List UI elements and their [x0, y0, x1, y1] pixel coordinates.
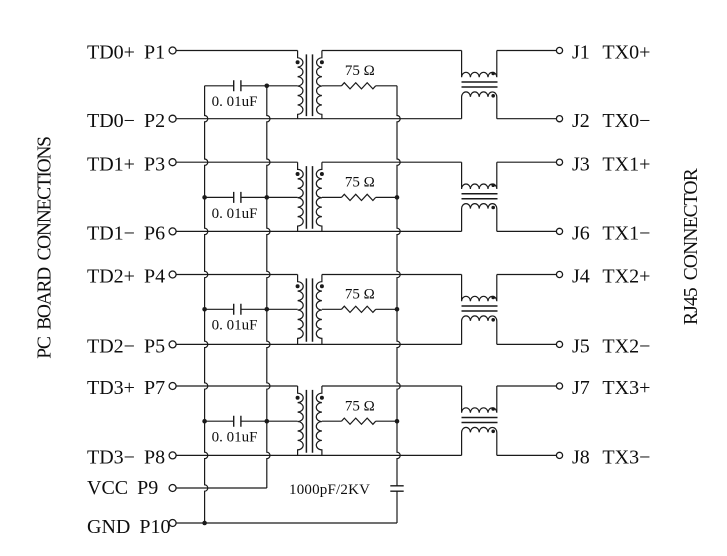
capacitor C5 1000pF/2KV plates [390, 486, 403, 491]
transformer T3 primary winding [298, 275, 304, 345]
pin J5 terminal circle [556, 341, 562, 347]
wire pin P9 to VCC rail [176, 487, 267, 489]
node: termination rail / R3 junction [395, 307, 400, 312]
resistor R1 75 ohm zigzag [342, 83, 376, 89]
transformer T4 secondary phase dot [320, 396, 324, 400]
pin P1 terminal circle [169, 47, 176, 54]
pin J4 terminal circle [556, 271, 562, 277]
svg-text:TD3− P8: TD3− P8 [87, 447, 165, 469]
svg-text:TD1− P6: TD1− P6 [87, 223, 165, 245]
wire P6 line to choke L2 (bottom, continuous) [176, 230, 462, 232]
svg-text:VCC P9: VCC P9 [87, 477, 158, 499]
wire T1 secondary center tap to resistor R1 [322, 85, 342, 87]
svg-text:1000pF/2KV: 1000pF/2KV [289, 482, 370, 498]
wire GND rail to capacitor C1 [205, 85, 234, 87]
svg-text:J2 TX0−: J2 TX0− [572, 110, 650, 132]
wire T2 secondary top to choke L2 [322, 161, 462, 163]
svg-text:0. 01uF: 0. 01uF [212, 94, 258, 110]
choke L3 top phase dot [491, 296, 495, 300]
svg-text:0. 01uF: 0. 01uF [212, 430, 258, 446]
svg-text:TD2− P5: TD2− P5 [87, 336, 165, 358]
svg-text:RJ45 CONNECTOR: RJ45 CONNECTOR [681, 168, 702, 325]
node: VCC rail / C3 junction [265, 307, 270, 312]
resistor R3 75 ohm zigzag [342, 306, 376, 312]
pin P9 terminal circle [169, 485, 176, 492]
choke L3 bottom winding [462, 316, 497, 345]
choke L4 top phase dot [491, 407, 495, 411]
svg-text:J3 TX1+: J3 TX1+ [572, 153, 650, 175]
choke L2 bottom winding [462, 204, 497, 232]
pin P8 terminal circle [169, 452, 176, 459]
wire P2 line to choke L1 (bottom, continuous) [176, 118, 462, 120]
pin P4 terminal circle [169, 271, 176, 278]
wire T3 secondary top to choke L3 [322, 274, 462, 276]
svg-text:75 Ω: 75 Ω [345, 398, 375, 414]
pin J8 terminal circle [556, 452, 562, 458]
transformer T1 primary phase dot [296, 60, 300, 64]
wire choke L1 to J2 [497, 118, 557, 120]
transformer T4 core [306, 390, 312, 453]
svg-text:PC BOARD CONNECTIONS: PC BOARD CONNECTIONS [35, 137, 56, 359]
wire VCC rail (vertical, with crossover hops) [267, 86, 270, 488]
transformer T2 core [306, 166, 312, 229]
pin J6 terminal circle [556, 228, 562, 234]
transformer T3 core [306, 278, 312, 341]
transformer T2 secondary winding [316, 162, 322, 231]
transformer T4 primary winding [298, 386, 304, 455]
resistor R4 75 ohm zigzag [342, 418, 376, 424]
svg-text:TD0− P2: TD0− P2 [87, 110, 165, 132]
svg-text:J4 TX2+: J4 TX2+ [572, 266, 650, 288]
svg-text:75 Ω: 75 Ω [345, 286, 375, 302]
svg-text:0. 01uF: 0. 01uF [212, 206, 258, 222]
wire resistor R3 to termination rail [376, 308, 397, 310]
svg-text:GND P10: GND P10 [87, 516, 170, 538]
wire choke L3 to J4 [497, 274, 557, 276]
wire capacitor C5 to GND line [396, 491, 398, 523]
choke L1 bottom phase dot [491, 94, 495, 98]
transformer T1 primary winding [298, 51, 303, 119]
wire choke L2 to J3 [497, 161, 557, 163]
wire choke L4 to J7 [497, 385, 557, 387]
transformer T2 primary phase dot [296, 172, 300, 176]
svg-text:0. 01uF: 0. 01uF [212, 318, 258, 334]
svg-text:J5 TX2−: J5 TX2− [572, 336, 650, 358]
wire resistor R2 to termination rail [376, 196, 397, 198]
wire choke L2 to J6 [497, 230, 557, 232]
pin J1 terminal circle [556, 47, 562, 53]
wire T4 secondary center tap to resistor R4 [322, 420, 342, 422]
transformer T3 primary phase dot [296, 284, 300, 288]
choke L3 core [462, 306, 498, 311]
capacitor C4 plates [234, 416, 241, 427]
wire T3 secondary center tap to resistor R3 [322, 308, 342, 310]
wire P1 to T1 primary top [176, 50, 298, 52]
wire P4 to T3 primary top [176, 274, 298, 276]
pin J2 terminal circle [556, 116, 562, 122]
transformer T1 secondary winding [317, 51, 322, 119]
choke L4 bottom phase dot [491, 430, 495, 434]
svg-text:75 Ω: 75 Ω [345, 63, 375, 79]
svg-text:TD1+ P3: TD1+ P3 [87, 153, 165, 175]
choke L4 top winding [462, 386, 497, 413]
svg-text:75 Ω: 75 Ω [345, 175, 375, 191]
choke L4 bottom winding [462, 427, 497, 455]
svg-text:TD2+ P4: TD2+ P4 [87, 266, 165, 288]
transformer T4 secondary winding [316, 386, 322, 455]
choke L2 core [462, 194, 498, 199]
transformer T1 secondary phase dot [320, 60, 324, 64]
node: VCC rail / C1 junction [265, 84, 270, 89]
wire P5 line to choke L3 (bottom, continuous) [176, 343, 462, 345]
node: GND rail / C3 junction [202, 307, 207, 312]
wire resistor R1 to termination rail [376, 85, 397, 87]
choke L3 bottom phase dot [491, 318, 495, 322]
transformer T2 secondary phase dot [320, 172, 324, 176]
wire T1 secondary top to choke L1 [322, 50, 462, 52]
transformer T1 core [306, 54, 312, 116]
svg-text:TD3+ P7: TD3+ P7 [87, 377, 165, 399]
wire P7 to T4 primary top [176, 385, 298, 387]
wire capacitor C3 to VCC rail and T3 primary center tap [241, 308, 298, 310]
pin J7 terminal circle [556, 383, 562, 389]
pin P10 terminal circle [169, 520, 176, 527]
pin J3 terminal circle [556, 159, 562, 165]
transformer T3 secondary phase dot [320, 284, 324, 288]
wire T4 secondary top to choke L4 [322, 385, 462, 387]
wire choke L1 to J1 [497, 50, 557, 52]
node: VCC rail / C4 junction [265, 419, 270, 424]
wire termination rail to 1000pF cap (vertical, with crossover hops) [397, 86, 400, 486]
transformer T4 primary phase dot [296, 396, 300, 400]
choke L2 top winding [462, 162, 497, 189]
capacitor C3 plates [234, 304, 241, 315]
pin P5 terminal circle [169, 341, 176, 348]
wire resistor R4 to termination rail [376, 420, 397, 422]
wire GND rail to capacitor C3 [205, 308, 234, 310]
pin P6 terminal circle [169, 228, 176, 235]
choke L3 top winding [462, 275, 497, 302]
svg-text:J8 TX3−: J8 TX3− [572, 447, 650, 469]
svg-text:J1 TX0+: J1 TX0+ [572, 42, 650, 64]
choke L1 top phase dot [491, 72, 495, 76]
node: VCC rail / C2 junction [265, 195, 270, 200]
wire choke L3 to J5 [497, 343, 557, 345]
node: termination rail / R4 junction [395, 419, 400, 424]
wire GND rail to capacitor C4 [205, 420, 234, 422]
node: termination rail / R2 junction [395, 195, 400, 200]
choke L1 core [462, 82, 498, 87]
choke L2 top phase dot [491, 183, 495, 187]
wire pin P10 GND line [176, 522, 397, 524]
transformer T3 secondary winding [316, 275, 322, 345]
resistor R2 75 ohm zigzag [342, 194, 376, 200]
choke L2 bottom phase dot [491, 206, 495, 210]
wire P8 line to choke L4 (bottom, continuous) [176, 454, 462, 456]
wire capacitor C1 to VCC rail and T1 primary center tap [241, 85, 298, 87]
wire capacitor C2 to VCC rail and T2 primary center tap [241, 196, 298, 198]
wire T2 secondary center tap to resistor R2 [322, 196, 342, 198]
wire GND rail (vertical, with crossover hops) [205, 86, 208, 523]
wire GND rail to capacitor C2 [205, 196, 234, 198]
svg-text:J7 TX3+: J7 TX3+ [572, 377, 650, 399]
choke L4 core [462, 418, 498, 423]
transformer T2 primary winding [298, 162, 304, 231]
capacitor C1 plates [234, 80, 241, 91]
pin P2 terminal circle [169, 115, 176, 122]
node: GND rail / C4 junction [202, 419, 207, 424]
capacitor C2 plates [234, 192, 241, 203]
pin P3 terminal circle [169, 159, 176, 166]
wire capacitor C4 to VCC rail and T4 primary center tap [241, 420, 298, 422]
pin P7 terminal circle [169, 383, 176, 390]
node: GND rail / P10 line junction [202, 521, 207, 526]
wire P3 to T2 primary top [176, 161, 298, 163]
svg-text:J6 TX1−: J6 TX1− [572, 223, 650, 245]
choke L1 bottom winding [462, 92, 497, 119]
choke L1 top winding [462, 51, 497, 78]
svg-text:TD0+ P1: TD0+ P1 [87, 42, 165, 64]
wire choke L4 to J8 [497, 454, 557, 456]
node: GND rail / C2 junction [202, 195, 207, 200]
